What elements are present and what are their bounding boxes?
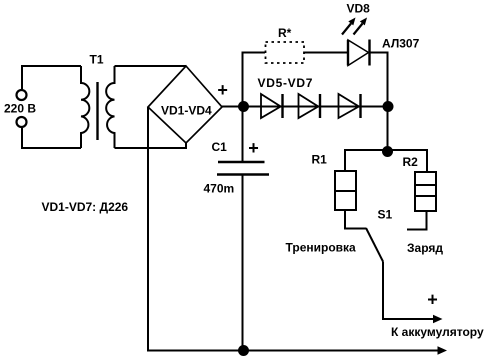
- plug terminal lower circle: [17, 117, 27, 127]
- arrowhead: positive output: [433, 315, 443, 323]
- transformer T1 secondary winding: [106, 66, 114, 148]
- svg-text:АЛ307: АЛ307: [382, 37, 420, 51]
- wire: plug loop bottom side: [22, 128, 81, 148]
- wire: bottom negative rail: [147, 350, 440, 352]
- wire: R* to LED anode: [304, 52, 348, 54]
- LED VD8 emission arrows: [342, 18, 367, 35]
- LED VD8: [348, 40, 370, 66]
- wire: bridge right vertex to positive node: [222, 106, 243, 108]
- wire: plug loop top side: [22, 66, 81, 89]
- plug terminal upper circle: [17, 90, 27, 100]
- svg-text:VD1-VD7: Д226: VD1-VD7: Д226: [42, 200, 129, 214]
- svg-text:VD8: VD8: [347, 2, 371, 16]
- svg-text:VD1-VD4: VD1-VD4: [161, 104, 212, 118]
- wire: R2 bottom to switch right contact: [407, 211, 427, 230]
- svg-text:Заряд: Заряд: [407, 241, 443, 255]
- svg-text:R1: R1: [312, 153, 328, 167]
- wire: capacitor to bottom rail: [242, 175, 244, 351]
- wire: R1 bottom to switch left contact: [345, 210, 366, 229]
- svg-text:220 В: 220 В: [4, 102, 36, 116]
- node: bottom rail junction dot: [238, 345, 249, 356]
- svg-text:VD5-VD7: VD5-VD7: [258, 76, 314, 90]
- wire: LED cathode down to right junction: [370, 53, 388, 107]
- svg-text:+: +: [427, 290, 438, 310]
- resistor R2: [415, 172, 436, 211]
- switch S1 blade: [366, 228, 383, 262]
- node: switch feed junction dot: [382, 146, 393, 157]
- transformer T1 core: [96, 82, 98, 140]
- svg-text:T1: T1: [90, 53, 104, 67]
- capacitor C1 bottom plate: [217, 173, 269, 176]
- svg-text:S1: S1: [378, 208, 393, 222]
- wire: switch output to positive terminal: [383, 262, 435, 320]
- wire: secondary bottom to bridge bottom vertex: [115, 143, 187, 148]
- diode VD7: [339, 94, 361, 118]
- svg-text:+: +: [217, 80, 228, 100]
- wire: feed node to R1 and R2 tops: [345, 150, 427, 172]
- wire: secondary top to bridge top vertex: [115, 65, 187, 67]
- wire: LED branch up from positive node: [243, 53, 266, 107]
- svg-text:R2: R2: [403, 155, 419, 169]
- transformer T1 primary winding: [81, 66, 89, 148]
- capacitor C1 top plate: [218, 161, 265, 164]
- diode VD6: [299, 94, 321, 118]
- node: positive junction dot: [238, 101, 249, 112]
- wire: negative rail from bridge left vertex down: [147, 107, 149, 351]
- wire: right junction down to switch feed node: [387, 107, 389, 152]
- wire: positive node down to capacitor: [242, 107, 244, 162]
- arrowhead: bottom rail to battery: [438, 346, 448, 354]
- svg-text:Тренировка: Тренировка: [286, 241, 357, 255]
- bridge rectifier VD1-VD4 diamond: [148, 66, 222, 143]
- node: diode string right junction dot: [383, 101, 394, 112]
- svg-text:470m: 470m: [204, 182, 235, 196]
- wire: diode string horizontal: [243, 106, 388, 108]
- diode VD5: [261, 94, 283, 118]
- svg-text:К аккумулятору: К аккумулятору: [391, 325, 484, 339]
- resistor R1: [335, 171, 356, 210]
- svg-text:C1: C1: [212, 140, 228, 154]
- svg-text:R*: R*: [278, 26, 292, 40]
- svg-text:+: +: [248, 138, 259, 158]
- resistor R* dashed box: [266, 42, 305, 63]
